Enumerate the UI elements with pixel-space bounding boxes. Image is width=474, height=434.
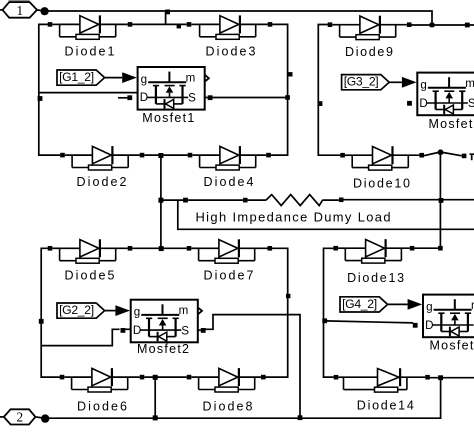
- wire top rail (node P): [45, 11, 432, 25]
- junction square on right upper bus (Mosfet3 D tap): [318, 101, 323, 106]
- wire stub at Mosfet2 D port: [124, 328, 131, 330]
- wire stub from left edge to port 1: [0, 9, 3, 11]
- wire load right to right edge: [344, 199, 474, 201]
- junction square row3 x=440: [438, 246, 443, 251]
- lone connection square on left bus: [38, 96, 43, 101]
- from tag G2_2: [57, 303, 105, 318]
- svg-text:Diode9: Diode9: [345, 45, 393, 59]
- svg-text:Diode8: Diode8: [203, 400, 253, 414]
- wire port 1 to junction dot: [37, 10, 45, 11]
- svg-text:Diode4: Diode4: [204, 175, 254, 189]
- wire lower-right bus x=323.5: [324, 248, 334, 377]
- svg-text:S: S: [188, 92, 196, 105]
- junction square at rail corner x=432: [430, 23, 435, 28]
- junction square on midpoint column (Mosfet1 m): [288, 72, 292, 76]
- wire Diode2 cathode to Diode4 anode: [144, 154, 188, 156]
- wire right column x=440 upper: [439, 152, 441, 248]
- junction square below row1 wire: [177, 24, 181, 28]
- lone connection square on lower-left bus: [39, 319, 44, 324]
- diode D1 (Diode1): [48, 15, 133, 58]
- wire Diode3 cathode to midpoint column x=287.6: [271, 24, 288, 155]
- svg-text:High Impedance Dumy Load: High Impedance Dumy Load: [196, 209, 391, 224]
- wire left upper bus (Diode1/Diode2 anodes): [39, 24, 61, 155]
- junction square row4 x=440: [438, 375, 443, 380]
- wire Diode7 cathode to lower midpoint column: [265, 248, 287, 377]
- svg-text:[G1_2]: [G1_2]: [59, 70, 94, 84]
- diode D6 (Diode6): [60, 368, 145, 414]
- wire+arrow G1_2 to Mosfet1 g: [105, 77, 123, 79]
- junction square label-wire tap: [183, 198, 188, 203]
- svg-text:Mosfet4: Mosfet4: [430, 339, 474, 353]
- junction square Mosfet4 D tap: [322, 318, 327, 323]
- svg-text:Diode3: Diode3: [206, 45, 256, 59]
- svg-text:2: 2: [17, 410, 24, 425]
- port square on wire to right edge: [465, 23, 470, 28]
- svg-text:[G2_2]: [G2_2]: [59, 303, 94, 317]
- wire load left: [161, 199, 243, 201]
- junction dot right-leg node: [438, 149, 444, 155]
- diode D2 (Diode2): [60, 146, 144, 189]
- wire Diode10 cathode diagonal up: [424, 153, 438, 156]
- junction square Mosfet1 S tee: [285, 95, 290, 100]
- diode D13 (Diode13): [333, 239, 414, 285]
- wire Diode1 cathode to row1 junction: [132, 23, 187, 25]
- from tag G1_2: [57, 70, 105, 85]
- wire right-leg upper bus x=318.3: [318, 25, 340, 156]
- svg-text:g: g: [420, 79, 426, 92]
- wire+arrow G2_2 to Mosfet2 g: [105, 310, 116, 312]
- wire rail drop x=155.2: [154, 377, 156, 418]
- svg-text:Mosfet3: Mosfet3: [429, 117, 474, 131]
- svg-text:m: m: [186, 71, 196, 84]
- wire Mosfet2 S to bottom rail: [205, 315, 300, 418]
- svg-text:Diode5: Diode5: [65, 269, 115, 283]
- wire rail drop to row1 at x=165.6: [165, 11, 167, 24]
- wire Diode13 cathode to x=440 column: [414, 247, 440, 249]
- junction square row2 x=160.9: [158, 153, 163, 158]
- diode D8 (Diode8): [187, 368, 266, 414]
- wire diagonal down to edge port: [443, 153, 462, 156]
- svg-text:Diode2: Diode2: [77, 175, 127, 189]
- from tag G4_2: [340, 297, 388, 312]
- clipped element at right edge: [470, 153, 474, 155]
- junction square row4 x=155.2: [153, 375, 158, 380]
- mosfet Q3 (Mosfet3, clipped): [407, 73, 474, 132]
- wire Mosfet2 D from lower-left bus: [41, 329, 119, 345]
- wire Diode6 cathode to Diode8 anode: [144, 376, 186, 378]
- diode D4 (Diode4): [188, 146, 271, 189]
- wire Mosfet1 D from left bus: [39, 92, 138, 94]
- wire Mosfet4 D diagonal: [326, 321, 414, 323]
- mosfet Q2 (Mosfet2): [121, 300, 206, 356]
- svg-text:Diode6: Diode6: [77, 400, 127, 414]
- svg-text:1: 1: [17, 3, 24, 18]
- wire Diode9 cathode to rail corner and right edge: [411, 24, 474, 26]
- diode D3 (Diode3): [187, 15, 273, 58]
- wire bottom rail (node N): [45, 378, 440, 419]
- junction square row3 x=160.9: [159, 246, 164, 251]
- diode D10 (Diode10): [340, 146, 424, 191]
- wire Mosfet1 S to midpoint column: [212, 97, 287, 99]
- mosfet Q4 (Mosfet4, clipped): [413, 295, 474, 353]
- diode D5 (Diode5): [48, 239, 133, 282]
- wire port 2 to junction dot: [35, 417, 45, 418]
- svg-text:g: g: [134, 306, 140, 319]
- wire stub from left edge to port 2: [0, 416, 4, 418]
- svg-text:Mosfet1: Mosfet1: [142, 111, 194, 125]
- junction dot at top-left node P: [41, 7, 49, 15]
- svg-text:[G4_2]: [G4_2]: [342, 297, 377, 311]
- wire Diode14 cathode to right edge: [430, 377, 474, 379]
- svg-text:[G3_2]: [G3_2]: [344, 75, 379, 89]
- clipped gray element at top edge: [9, 0, 30, 3]
- port square near right edge: [462, 154, 467, 159]
- wire lower-left bus (Diode5/Diode6 anodes): [41, 248, 60, 377]
- svg-text:m: m: [465, 77, 474, 90]
- junction square on lower midpoint column (Mosfet2 m): [286, 294, 290, 298]
- wire from load node down and right to edge (under label): [178, 201, 474, 230]
- svg-text:Diode7: Diode7: [204, 269, 254, 283]
- input port 2 (hexagon): [4, 409, 36, 424]
- junction square on rail: [165, 10, 170, 15]
- svg-text:g: g: [426, 301, 432, 314]
- svg-text:S: S: [468, 97, 474, 110]
- svg-text:Mosfet2: Mosfet2: [137, 342, 189, 356]
- wire+arrow G4_2 to Mosfet4 g: [388, 303, 408, 305]
- mosfet Q1 (Mosfet1): [127, 67, 212, 125]
- input port 1 (hexagon): [3, 2, 38, 18]
- svg-text:S: S: [181, 324, 189, 337]
- from tag G3_2: [342, 75, 390, 90]
- diode D9 (Diode9): [328, 16, 412, 59]
- svg-text:m: m: [179, 304, 189, 317]
- junction square rail x=155.2: [153, 415, 158, 420]
- diode D14 (Diode14): [334, 368, 430, 412]
- junction dot at bottom-left node N: [41, 414, 49, 422]
- wire+arrow G3_2 to Mosfet3 g: [389, 81, 402, 83]
- resistor R load (series RLC branch): [243, 195, 344, 206]
- junction square load wire x=440: [439, 198, 444, 203]
- svg-text:g: g: [141, 73, 147, 86]
- junction square Mosfet2 S at rail: [298, 415, 303, 420]
- junction square load tap x=160.9: [158, 198, 163, 203]
- diode D7 (Diode7): [187, 239, 272, 282]
- wire Diode5 cathode to row3 junction: [132, 247, 187, 249]
- wire left midpoint column x=160.9: [160, 155, 162, 248]
- svg-text:Diode1: Diode1: [65, 45, 115, 59]
- wire stub at Mosfet1 D port: [118, 97, 127, 99]
